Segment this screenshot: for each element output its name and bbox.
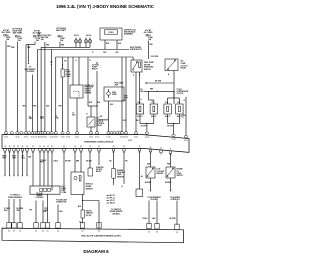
svg-text:RELAY: RELAY [92,68,98,71]
svg-text:C2 DK GRN: C2 DK GRN [151,56,159,58]
svg-text:22: 22 [160,148,162,150]
svg-text:C1-12: C1-12 [172,139,176,141]
svg-text:WHT: WHT [40,162,44,164]
svg-text:C2: C2 [121,186,123,188]
svg-text:DK GRN: DK GRN [65,161,71,163]
svg-text:22: 22 [13,146,15,148]
svg-text:BYP: BYP [103,52,106,54]
svg-text:ALL TIMES: ALL TIMES [33,31,43,34]
svg-text:ENGINE: ENGINE [117,170,124,172]
svg-text:C2: C2 [57,231,59,233]
svg-text:A: A [181,108,182,111]
svg-text:C1-12: C1-12 [134,137,138,139]
svg-text:BLK: BLK [152,218,156,220]
svg-text:22: 22 [32,146,34,148]
svg-text:COMPRESSOR: COMPRESSOR [97,119,109,121]
svg-text:COMPRESSOR: COMPRESSOR [177,91,189,93]
svg-text:22: 22 [26,146,28,148]
svg-text:RELAY: RELAY [181,67,187,70]
svg-text:WHT: WHT [4,210,8,212]
svg-text:ORN: ORN [182,115,186,117]
svg-text:22: 22 [123,146,125,148]
svg-text:22: 22 [80,146,82,148]
svg-text:ALL TIMES: ALL TIMES [2,31,12,34]
svg-text:LT BLU: LT BLU [142,218,148,220]
svg-text:C2: C2 [35,231,37,233]
svg-text:IC: IC [92,52,94,54]
svg-text:BLK: BLK [110,104,113,106]
svg-text:BLK: BLK [78,206,82,208]
svg-text:C1-12: C1-12 [61,137,65,139]
svg-text:WHT: WHT [40,118,44,120]
svg-text:BRN: BRN [76,161,79,163]
svg-text:B: B [89,60,91,62]
svg-text:CONNECTOR: CONNECTOR [56,202,67,204]
svg-text:GRY: GRY [100,116,103,118]
svg-text:22: 22 [39,146,41,148]
svg-text:A: A [168,73,170,76]
svg-text:A/C ELECTRIC: A/C ELECTRIC [40,34,52,37]
svg-text:BLK/: BLK/ [12,156,16,158]
svg-text:BLK: BLK [72,115,76,117]
svg-text:C1-12: C1-12 [95,137,99,139]
svg-text:ENGINE OIL: ENGINE OIL [85,85,94,87]
svg-text:22: 22 [9,146,11,148]
svg-text:CLUTCH: CLUTCH [177,93,184,95]
svg-text:PPL C2: PPL C2 [110,198,115,200]
svg-text:22: 22 [4,146,6,148]
svg-text:CLUSTER: CLUSTER [150,199,158,201]
svg-text:CLUTCH: CLUTCH [97,121,104,123]
svg-text:PNK: PNK [46,44,50,46]
svg-text:BRN/: BRN/ [2,156,6,158]
svg-text:A: A [141,108,142,111]
svg-text:TAN: TAN [28,156,31,159]
svg-text:22: 22 [150,147,152,149]
svg-text:PRESSURE: PRESSURE [85,87,95,89]
svg-text:SENSOR: SENSOR [117,176,125,178]
svg-text:POWERTRAIN CONTROL MODULE: POWERTRAIN CONTROL MODULE [84,140,114,143]
svg-text:ASSEMBLY: ASSEMBLY [124,33,134,36]
svg-text:ENGINE: ENGINE [177,169,183,171]
svg-text:DK: DK [22,156,25,158]
svg-text:22: 22 [47,146,49,148]
svg-text:EST: EST [115,52,118,54]
svg-text:WHT: WHT [17,210,21,212]
svg-text:ALL TIMES: ALL TIMES [144,31,154,34]
svg-text:INJ 3-4: INJ 3-4 [86,34,91,37]
svg-text:GRY C1: GRY C1 [110,200,116,202]
svg-text:DIAGRAM 6: DIAGRAM 6 [83,249,109,254]
svg-text:DK GRN: DK GRN [141,126,147,128]
svg-text:IGNITION SYS: IGNITION SYS [130,49,143,51]
svg-text:B+: B+ [50,61,52,63]
svg-text:INJ 1-2: INJ 1-2 [74,35,79,37]
svg-text:SPEED SENSORS: SPEED SENSORS [8,197,23,199]
svg-text:C1-12: C1-12 [184,140,188,142]
svg-text:C1 C2: C1 C2 [128,140,132,142]
svg-text:DLC: DLC [62,186,66,188]
svg-text:C1-12: C1-12 [124,137,128,139]
svg-text:C1-12: C1-12 [89,137,93,139]
svg-text:SENSOR: SENSOR [86,213,94,215]
svg-text:RED: RED [150,44,154,46]
svg-text:TO INSTRUMENT: TO INSTRUMENT [147,197,160,199]
svg-text:(W/ V6): (W/ V6) [86,215,92,217]
svg-text:C2: C2 [19,231,21,233]
svg-text:C1-12: C1-12 [16,137,20,139]
svg-text:PNK: PNK [61,45,65,47]
svg-text:A: A [169,108,170,111]
svg-text:FUEL: FUEL [112,92,116,94]
svg-text:C1-12: C1-12 [54,137,58,139]
svg-text:SWITCH: SWITCH [144,69,151,71]
svg-text:22: 22 [89,146,91,148]
svg-text:LEVEL: LEVEL [177,173,182,175]
svg-text:PUMP: PUMP [112,94,118,96]
svg-text:TEMP: TEMP [117,174,122,176]
svg-text:AND START: AND START [56,29,67,32]
svg-text:LOW: LOW [157,169,161,171]
svg-text:DK GRN: DK GRN [169,218,176,220]
svg-text:BLK/: BLK/ [124,96,128,98]
svg-text:22: 22 [74,146,76,148]
svg-text:BLK/: BLK/ [40,116,44,118]
svg-text:CONN: CONN [62,192,68,194]
svg-text:MOTOR: MOTOR [96,169,103,171]
svg-text:PPL/: PPL/ [45,208,49,210]
svg-text:PNK: PNK [55,117,59,119]
svg-text:CLUSTER: CLUSTER [26,71,35,73]
svg-text:C1-12: C1-12 [4,137,8,139]
svg-text:C1-12: C1-12 [43,137,47,139]
svg-text:COILS: COILS [108,32,114,34]
svg-text:CONTROL: CONTROL [97,123,105,125]
svg-text:C1-12: C1-12 [31,137,35,139]
svg-text:C1: C1 [184,100,186,102]
svg-text:C1: C1 [140,99,142,101]
svg-text:DK GRN: DK GRN [155,80,162,82]
svg-text:22: 22 [17,146,19,148]
svg-text:WHT: WHT [2,158,6,160]
svg-text:A: A [155,108,156,111]
svg-text:C1: C1 [182,117,184,119]
svg-text:C1-12: C1-12 [24,137,28,139]
svg-text:GRY: GRY [123,100,126,102]
svg-text:OIL: OIL [177,171,180,173]
svg-text:1996 2.4L (VIN T) ENGINE SCHEM: 1996 2.4L (VIN T) ENGINE SCHEMATIC (CONT… [81,235,121,238]
svg-text:C2: C2 [98,231,100,233]
svg-text:WHT: WHT [89,102,93,104]
svg-text:GRN: GRN [140,91,143,93]
svg-text:PPL: PPL [29,210,32,212]
svg-text:BLK: BLK [46,106,50,108]
svg-text:KNOCK: KNOCK [86,211,93,213]
svg-text:A: A [133,73,134,76]
svg-text:STARTER: STARTER [96,166,104,169]
svg-text:DK: DK [140,89,143,91]
svg-text:DK GRN: DK GRN [86,161,92,163]
svg-text:C2: C2 [47,231,49,233]
svg-text:SENSOR: SENSOR [86,189,94,191]
svg-text:WHT: WHT [106,43,109,45]
svg-text:C2: C2 [42,231,44,233]
svg-text:C2: C2 [8,231,10,233]
svg-text:CONTROLS: CONTROLS [170,199,180,201]
svg-text:BLK: BLK [97,102,101,104]
svg-text:PNK: PNK [27,47,31,49]
svg-text:PPL: PPL [125,161,128,163]
svg-text:C2: C2 [176,232,178,234]
svg-text:PNK: PNK [58,106,62,108]
svg-text:C2: C2 [72,113,74,115]
svg-text:SWITCH: SWITCH [177,175,184,177]
svg-text:22: 22 [63,146,65,148]
svg-text:FUEL TANK: FUEL TANK [115,81,125,84]
svg-text:C2: C2 [82,231,84,233]
svg-text:22: 22 [170,149,172,151]
svg-text:C2: C2 [13,231,15,233]
svg-text:C2: C2 [148,231,150,233]
svg-text:22: 22 [43,146,45,148]
svg-text:22: 22 [139,146,141,148]
svg-text:C1-12: C1-12 [107,137,111,139]
svg-text:LT GRN/: LT GRN/ [4,208,11,210]
svg-text:PRIME: PRIME [66,74,72,76]
svg-text:PNK: PNK [33,106,37,108]
svg-text:BLK: BLK [60,211,64,213]
svg-text:PNK: PNK [150,89,154,91]
svg-text:SENSOR: SENSOR [157,173,165,175]
svg-text:INJ: INJ [64,61,66,63]
svg-text:1996 2.4L (VIN T) J-BODY ENGIN: 1996 2.4L (VIN T) J-BODY ENGINE SCHEMATI… [56,4,155,9]
svg-text:C1-12: C1-12 [145,137,149,139]
svg-text:CONTROL: CONTROL [36,197,44,199]
svg-text:22: 22 [22,146,24,148]
svg-text:TO DATA LINK: TO DATA LINK [56,198,68,201]
svg-text:GRY: GRY [123,120,126,122]
svg-text:TAN: TAN [22,105,26,108]
svg-text:TO ELEC: TO ELEC [36,193,44,195]
svg-text:TO A/C: TO A/C [177,88,183,91]
svg-text:22: 22 [98,146,100,148]
svg-text:C1: C1 [86,114,88,116]
svg-text:C2: C2 [156,232,158,234]
svg-text:AND START: AND START [13,31,24,34]
svg-text:TO VEHICLE: TO VEHICLE [10,195,21,197]
svg-text:C1-12: C1-12 [75,137,79,139]
svg-text:DK: DK [29,116,32,118]
svg-text:C2: C2 [160,154,162,156]
svg-text:LT BLU/: LT BLU/ [40,160,47,162]
svg-text:UNIT: UNIT [115,84,119,86]
svg-text:WHT: WHT [12,158,16,160]
svg-text:C2: C2 [55,115,57,117]
svg-text:FUEL: FUEL [66,70,70,72]
svg-text:BLK: BLK [118,43,122,45]
svg-text:A4: A4 [141,175,143,178]
svg-text:22: 22 [113,146,115,148]
svg-text:SPEED SENSOR: SPEED SENSOR [110,211,124,213]
svg-text:A: A [75,59,77,62]
svg-text:LT BLU: LT BLU [53,161,58,163]
svg-text:TO BLOWER: TO BLOWER [170,197,181,199]
svg-text:22: 22 [51,146,53,148]
svg-text:C1-12: C1-12 [66,137,70,139]
svg-text:DK GRN: DK GRN [167,126,173,128]
svg-text:BLU: BLU [22,158,26,160]
svg-text:DK GRN/: DK GRN/ [17,208,24,210]
svg-text:WHT: WHT [124,97,127,99]
svg-text:BLK C1: BLK C1 [110,195,116,197]
svg-text:TO VEHICLE: TO VEHICLE [111,209,122,211]
svg-text:PNK: PNK [11,47,15,49]
svg-text:YEL: YEL [109,161,112,163]
